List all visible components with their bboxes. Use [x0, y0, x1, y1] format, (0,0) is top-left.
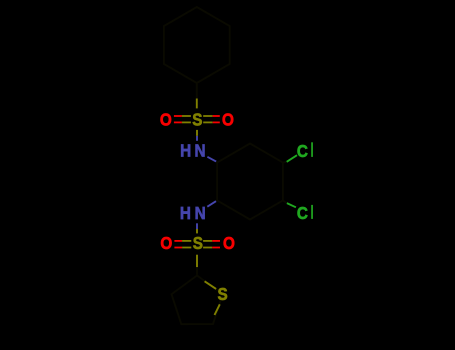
wire S3-C5(thiophene) sulfur half	[215, 304, 220, 315]
wire N2-C(aryl) carbon half (dark)	[216, 200, 217, 203]
wire N2-S2 nitrogen half	[196, 223, 198, 229]
double bond S1=O top-right, oxygen half	[213, 115, 220, 117]
svg-text:O: O	[223, 233, 235, 253]
svg-text:H: H	[180, 203, 191, 223]
double bond S1=O top-right, sulfur half	[203, 115, 213, 117]
wire C4-Cl carbon half (dark)	[283, 161, 287, 164]
wire C5-Cl chlorine half (bottom)	[287, 203, 296, 207]
wire C1(phenyl)-S sulfur half	[196, 99, 198, 109]
wire S1-N1 nitrogen half	[196, 136, 198, 141]
double bond S2=O bottom-left, oxygen half	[174, 240, 182, 242]
double bond S2=O bottom-right, oxygen half	[212, 240, 220, 242]
wire C2-S3(thiophene) sulfur half	[205, 281, 217, 289]
wire S2-C2(thiophene) sulfur half	[196, 255, 198, 268]
svg-text:S: S	[217, 284, 227, 304]
svg-text:O: O	[222, 110, 234, 130]
wire N1-C(aryl) carbon half (dark)	[215, 161, 218, 164]
wire C1(phenyl)-S carbon half (dark)	[196, 83, 198, 99]
benzene ring (top phenyl, carbon bonds nearly black)	[164, 7, 230, 83]
svg-text:O: O	[160, 233, 172, 253]
thiophene ring (carbon bonds nearly black)	[172, 276, 223, 325]
wire S2-C2(thiophene) carbon half (dark)	[196, 267, 198, 275]
svg-text:N: N	[194, 141, 205, 161]
svg-text:N: N	[195, 203, 206, 223]
wire S1-N1 sulfur half	[196, 130, 198, 136]
svg-text:H: H	[180, 141, 191, 161]
wire C4-Cl chlorine half (top)	[287, 155, 297, 162]
svg-text:C: C	[297, 141, 308, 161]
svg-text:O: O	[160, 110, 172, 130]
svg-text:S: S	[192, 109, 202, 129]
double bond S2=O bottom-right, sulfur half	[203, 240, 212, 242]
double bond S2=O bottom-left, sulfur half	[182, 240, 191, 242]
wire N1-C(aryl) nitrogen half	[207, 157, 216, 162]
wire C5-Cl carbon half (dark)	[283, 201, 287, 204]
benzene ring (central, carbon bonds nearly black)	[217, 144, 283, 220]
double bond S1=O top-left, oxygen half	[174, 115, 182, 117]
double bond S1=O top-left, sulfur half	[182, 115, 191, 117]
svg-text:C: C	[297, 203, 308, 223]
wire N2-C(aryl) nitrogen half	[207, 201, 216, 207]
svg-text:S: S	[193, 233, 203, 253]
wire N2-S2 sulfur half	[196, 229, 198, 233]
